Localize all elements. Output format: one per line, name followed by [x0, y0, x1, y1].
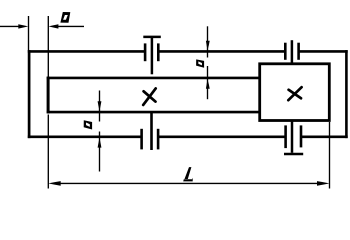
dimension a3 lower arrowhead (points up) [98, 138, 102, 148]
dimension L left arrowhead [48, 181, 61, 186]
dimension a1 right lead line [57, 25, 84, 27]
bearing B2 stem [291, 40, 294, 64]
dimension L line [58, 182, 320, 184]
bearing B4 bottom T-bar [284, 153, 303, 156]
shaft bar bottom edge [47, 111, 261, 114]
cross mark X1 on shaft [143, 88, 156, 105]
housing right edge [345, 50, 348, 138]
housing top edge (3 segments with bearing gaps) [28, 50, 348, 53]
bearing B2 top-right: plates [285, 43, 298, 60]
label L [183, 167, 193, 181]
bearing B3 stem [150, 111, 153, 150]
dimension a2 lower lead line (overshoots above shaft top) [207, 66, 209, 99]
housing bottom edge (3 segments with bearing gaps) [28, 136, 348, 139]
extension line E2 (shaft left, above) [47, 16, 49, 77]
bearing B1 top-left: plates [145, 43, 158, 61]
bearing B1 stem [151, 36, 154, 74]
bearing B3 bottom-left: plates [142, 129, 159, 150]
dimension a3 upper arrowhead (points down) [98, 101, 102, 111]
dimension L right arrowhead [317, 181, 330, 186]
bearing B4 bottom-right: plates [286, 125, 301, 148]
dimension a2 lower arrowhead (points up) [206, 79, 210, 89]
shaft bar top edge [47, 77, 261, 80]
extension line E3 (shaft left, below, for L) [47, 115, 49, 189]
label a2 (rotated) [196, 59, 204, 67]
housing left edge [28, 50, 31, 138]
extension line E1 (housing left, above) [28, 16, 30, 51]
dimension a2 upper lead line (overshoots through housing top) [207, 26, 209, 57]
shaft bar left edge [47, 77, 50, 114]
gear unit box [260, 64, 330, 121]
label a1 [60, 12, 70, 23]
dimension a3 lower lead line (overshoots above housing bottom) [99, 132, 101, 172]
dimension a1 left lead line [0, 25, 19, 27]
dimension a3 upper lead line (overshoots through shaft bottom) [99, 91, 101, 122]
dimension a2 upper arrowhead (points down) [206, 41, 210, 51]
cross mark X2 in gear unit box [288, 87, 301, 100]
bearing B4 stem [291, 121, 294, 153]
label a3 (rotated) [84, 120, 92, 129]
extension line E4 (box right, below, for L) [329, 122, 331, 189]
dimension a1 right arrowhead [48, 24, 58, 28]
dimension a1 left arrowhead [18, 24, 28, 28]
bearing B1 top T-bar [143, 36, 161, 39]
